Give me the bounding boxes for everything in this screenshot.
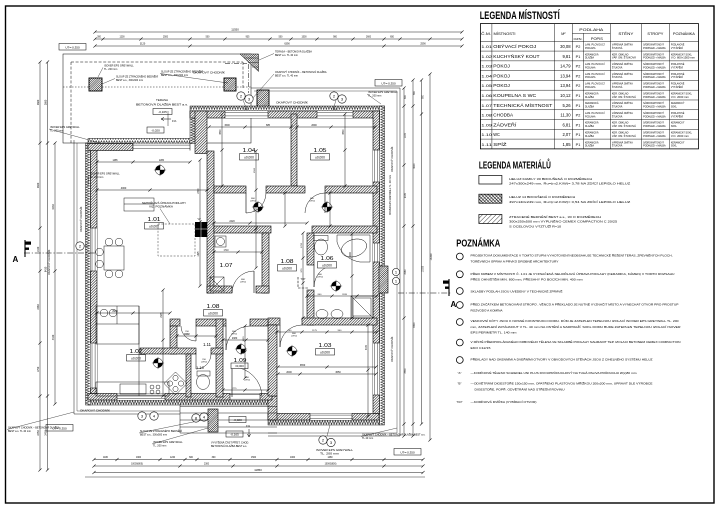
- svg-text:1900: 1900: [136, 457, 142, 459]
- svg-text:DLAŽBA: DLAŽBA: [585, 106, 594, 109]
- svg-text:1.05: 1.05: [481, 83, 493, 88]
- svg-text:OKAPOVÝ CHODNÍK: OKAPOVÝ CHODNÍK: [276, 100, 308, 104]
- svg-text:1020: 1020: [243, 336, 245, 342]
- svg-text:POKOJ: POKOJ: [493, 73, 510, 78]
- svg-text:497x140x249 mm, Ru=(m2.K/W)= 0: 497x140x249 mm, Ru=(m2.K/W)= 0,54 NA ZDÍ…: [509, 200, 631, 204]
- svg-text:1500: 1500: [254, 167, 256, 173]
- svg-text:LEGENDA MÍSTNOSTÍ: LEGENDA MÍSTNOSTÍ: [480, 9, 561, 22]
- svg-text:P1: P1: [576, 133, 581, 137]
- svg-text:4500: 4500: [220, 129, 222, 135]
- svg-text:(1970): (1970): [231, 334, 237, 336]
- svg-text:11,30: 11,30: [560, 113, 571, 118]
- svg-text:STROPY: STROPY: [647, 32, 664, 36]
- svg-text:PODHLED + MALBA: PODHLED + MALBA: [643, 125, 666, 128]
- svg-text:DLAŽBA: DLAŽBA: [585, 57, 594, 60]
- svg-text:PODHLED + MALBA: PODHLED + MALBA: [643, 96, 666, 99]
- svg-text:P2: P2: [576, 74, 581, 78]
- svg-text:3000: 3000: [349, 252, 352, 258]
- svg-text:SOKL: SOKL: [671, 106, 678, 109]
- svg-text:"KD": "KD": [457, 400, 463, 404]
- svg-text:1.01: 1.01: [148, 217, 161, 223]
- svg-text:KUCHYŇSKÝ KOUT: KUCHYŇSKÝ KOUT: [493, 54, 540, 59]
- svg-text:STĚNY: STĚNY: [618, 31, 634, 36]
- svg-text:PODHLED + MALBA: PODHLED + MALBA: [643, 86, 666, 89]
- svg-text:VÁP. OM. ŠTUKOVÁ: VÁP. OM. ŠTUKOVÁ: [612, 125, 636, 128]
- svg-text:OBÝVACÍ POKOJ: OBÝVACÍ POKOJ: [493, 44, 536, 49]
- svg-text:4230: 4230: [52, 204, 55, 210]
- svg-text:1.08: 1.08: [207, 304, 220, 310]
- svg-text:2800: 2800: [37, 182, 40, 188]
- svg-text:VYTÁPĚNÍ: VYTÁPĚNÍ: [671, 86, 683, 89]
- svg-text:2500: 2500: [163, 37, 169, 39]
- svg-text:VIZ. POZNÁMKA: VIZ. POZNÁMKA: [149, 205, 174, 208]
- svg-text:CHODBA: CHODBA: [493, 113, 513, 118]
- svg-text:ŠTUKOVÁ: ŠTUKOVÁ: [612, 106, 623, 109]
- svg-text:1580: 1580: [254, 206, 256, 212]
- svg-text:OKAPOVÝ CHODNÍK: OKAPOVÝ CHODNÍK: [80, 410, 110, 413]
- svg-text:ISOVER EPS GREYWALL TL. 200 mm: ISOVER EPS GREYWALL TL. 200 mm: [389, 175, 392, 215]
- svg-text:1.05: 1.05: [314, 148, 327, 154]
- svg-text:14,79: 14,79: [560, 64, 571, 69]
- svg-text:-0,020: -0,020: [151, 128, 160, 132]
- svg-text:UT=-0,350: UT=-0,350: [400, 450, 415, 454]
- svg-text:1.11: 1.11: [481, 142, 493, 147]
- svg-text:1240: 1240: [170, 457, 176, 459]
- svg-text:1175: 1175: [312, 330, 317, 332]
- svg-text:3120: 3120: [140, 43, 146, 46]
- svg-text:UT=-0,350: UT=-0,350: [65, 45, 80, 49]
- svg-text:685: 685: [266, 124, 271, 127]
- svg-text:P2: P2: [576, 114, 581, 118]
- svg-text:"B": "B": [458, 382, 462, 386]
- svg-text:BETONOVÁ DLAŽBA BEST a.s.: BETONOVÁ DLAŽBA BEST a.s.: [211, 445, 247, 448]
- svg-text:1700: 1700: [301, 242, 303, 248]
- svg-text:OKAPOVÝ CHODNÍK: OKAPOVÝ CHODNÍK: [79, 206, 83, 232]
- svg-text:OZN.: OZN.: [574, 37, 583, 41]
- svg-text:PODLAHA: PODLAHA: [579, 28, 604, 32]
- svg-text:DLAŽBA: DLAŽBA: [585, 125, 594, 128]
- svg-text:1540: 1540: [184, 334, 190, 336]
- svg-text:1%: 1%: [172, 119, 177, 123]
- svg-text:3180: 3180: [366, 344, 368, 350]
- svg-text:2300: 2300: [198, 188, 200, 194]
- svg-text:2935: 2935: [161, 312, 163, 318]
- svg-text:ŠTUKOVÁ: ŠTUKOVÁ: [612, 86, 623, 89]
- svg-text:1485: 1485: [112, 160, 118, 162]
- svg-text:TL. 200 mm: TL. 200 mm: [90, 176, 103, 179]
- svg-text:1200: 1200: [119, 37, 125, 39]
- svg-text:±0,000: ±0,000: [320, 350, 330, 354]
- svg-text:±0,000: ±0,000: [149, 224, 159, 228]
- svg-text:SOKL: SOKL: [671, 125, 678, 128]
- svg-text:2350: 2350: [244, 109, 250, 111]
- svg-text:2690: 2690: [311, 124, 317, 127]
- svg-text:PODHLED + MALBA: PODHLED + MALBA: [643, 76, 666, 79]
- svg-text:TERASA: TERASA: [156, 98, 168, 102]
- svg-text:2935: 2935: [112, 310, 118, 313]
- svg-text:DLAŽBA: DLAŽBA: [585, 135, 594, 138]
- svg-text:1%: 1%: [246, 424, 251, 428]
- svg-text:1.08: 1.08: [481, 113, 493, 118]
- svg-text:P1: P1: [576, 143, 581, 147]
- svg-text:2,07: 2,07: [562, 132, 571, 137]
- svg-text:A: A: [451, 300, 457, 309]
- svg-text:P2: P2: [576, 65, 581, 69]
- svg-text:2450: 2450: [44, 430, 47, 436]
- svg-text:"A": "A": [197, 217, 201, 221]
- svg-text:MÍSTNOSTI: MÍSTNOSTI: [494, 32, 516, 36]
- svg-text:1,85: 1,85: [562, 142, 571, 147]
- svg-text:P2: P2: [576, 45, 581, 49]
- svg-text:OKAPOVÝ CHODNÍK: OKAPOVÝ CHODNÍK: [390, 336, 394, 362]
- svg-text:8430: 8430: [44, 266, 47, 272]
- svg-text:1480: 1480: [327, 457, 333, 459]
- svg-text:PODHLED + MALBA: PODHLED + MALBA: [643, 57, 666, 60]
- svg-text:6390: 6390: [284, 43, 290, 46]
- svg-text:-0,165: -0,165: [158, 110, 167, 114]
- svg-text:VÁP. OM. ŠTUKOVÁ: VÁP. OM. ŠTUKOVÁ: [612, 57, 636, 60]
- svg-text:POZNÁMKA: POZNÁMKA: [673, 32, 696, 36]
- svg-text:BEST a.s. TL 40 mm: BEST a.s. TL 40 mm: [275, 54, 298, 57]
- svg-text:V.O. 2000 mm: V.O. 2000 mm: [671, 135, 689, 138]
- svg-text:2680: 2680: [44, 99, 47, 105]
- svg-text:1430: 1430: [37, 246, 40, 252]
- svg-text:(1970): (1970): [317, 277, 323, 279]
- svg-text:VÁP. OM. ŠTUKOVÁ: VÁP. OM. ŠTUKOVÁ: [612, 135, 636, 138]
- svg-text:5,26: 5,26: [562, 103, 571, 108]
- svg-text:"A": "A": [458, 371, 462, 375]
- svg-text:P1: P1: [576, 123, 581, 127]
- svg-text:13,94: 13,94: [560, 73, 571, 78]
- svg-text:1500: 1500: [251, 457, 257, 459]
- svg-text:1.09: 1.09: [481, 122, 493, 127]
- svg-text:SPÍŽ: SPÍŽ: [493, 142, 507, 147]
- svg-text:2600: 2600: [333, 109, 339, 111]
- svg-text:VYTÁPĚNÍ: VYTÁPĚNÍ: [671, 115, 683, 118]
- svg-text:1.06: 1.06: [321, 256, 334, 262]
- svg-text:ŠTUKOVÁ: ŠTUKOVÁ: [612, 66, 623, 69]
- svg-text:ŠTUKOVÁ: ŠTUKOVÁ: [612, 47, 623, 50]
- svg-text:ŠTUKOVÁ: ŠTUKOVÁ: [612, 145, 623, 148]
- svg-text:EKO C12/15: EKO C12/15: [471, 346, 492, 350]
- svg-text:1425: 1425: [198, 251, 200, 257]
- svg-text:OKAPOVÝ CHODNÍK: OKAPOVÝ CHODNÍK: [193, 71, 225, 75]
- svg-text:3650: 3650: [335, 371, 341, 374]
- svg-text:KOUPELNA S WC: KOUPELNA S WC: [493, 93, 536, 98]
- svg-text:POKOJ: POKOJ: [493, 64, 510, 69]
- svg-text:6,81: 6,81: [562, 122, 571, 127]
- svg-text:TL. 200 mm: TL. 200 mm: [368, 94, 381, 97]
- svg-text:1.08: 1.08: [281, 259, 294, 265]
- svg-text:P1: P1: [576, 94, 581, 98]
- svg-text:1.02: 1.02: [481, 54, 493, 59]
- svg-text:9,81: 9,81: [562, 54, 571, 59]
- svg-text:TECHNICKÁ MÍSTNOST: TECHNICKÁ MÍSTNOST: [493, 103, 553, 108]
- svg-text:PODHLED + MALBA: PODHLED + MALBA: [643, 106, 666, 109]
- svg-text:PODLAHA: PODLAHA: [585, 47, 596, 50]
- svg-text:247x300x249 mm, Ru=(m2.K/W)= 3: 247x300x249 mm, Ru=(m2.K/W)= 3,78 NA ZDÍ…: [509, 182, 631, 186]
- svg-text:UT=-0,350: UT=-0,350: [381, 81, 396, 85]
- svg-text:2000: 2000: [286, 371, 292, 374]
- svg-text:1.02: 1.02: [130, 349, 143, 355]
- svg-text:1000: 1000: [290, 457, 296, 459]
- svg-text:11850: 11850: [254, 468, 262, 472]
- svg-text:2450: 2450: [37, 430, 40, 436]
- svg-text:1970: 1970: [405, 132, 407, 138]
- svg-text:13,94: 13,94: [560, 83, 571, 88]
- svg-text:PODLAHA: PODLAHA: [585, 76, 596, 79]
- svg-text:ŠTUKOVÁ: ŠTUKOVÁ: [612, 76, 623, 79]
- svg-text:BEST a.s., 300x300 mm: BEST a.s., 300x300 mm: [116, 79, 143, 82]
- svg-text:2680: 2680: [37, 99, 40, 105]
- svg-text:±0,000: ±0,000: [282, 266, 292, 270]
- svg-text:30,08: 30,08: [560, 44, 571, 49]
- svg-text:2380: 2380: [37, 304, 40, 310]
- svg-text:10330: 10330: [422, 265, 424, 272]
- svg-text:3060: 3060: [405, 269, 407, 275]
- svg-text:VYTÁPĚNÍ: VYTÁPĚNÍ: [671, 66, 683, 69]
- svg-text:BEST a.s., 300x500 mm: BEST a.s., 300x500 mm: [140, 433, 167, 436]
- svg-text:1180: 1180: [103, 457, 109, 459]
- svg-text:1500: 1500: [301, 37, 307, 39]
- svg-text:1.10: 1.10: [196, 365, 205, 370]
- svg-text:TL 40 mm: TL 40 mm: [362, 437, 373, 440]
- svg-text:WC: WC: [493, 132, 500, 137]
- svg-text:PODHLED + MALBA: PODHLED + MALBA: [643, 47, 666, 50]
- svg-text:ŠTUKOVÁ: ŠTUKOVÁ: [612, 115, 623, 118]
- svg-text:LEGENDA MATERIÁLŮ: LEGENDA MATERIÁLŮ: [479, 157, 551, 171]
- svg-text:PODHLED + MALBA: PODHLED + MALBA: [643, 66, 666, 69]
- svg-text:3650: 3650: [300, 364, 306, 367]
- svg-text:10000(800): 10000(800): [131, 464, 143, 466]
- svg-text:P1: P1: [576, 104, 581, 108]
- svg-text:DLAŽBA: DLAŽBA: [585, 145, 594, 148]
- svg-text:A: A: [13, 255, 19, 264]
- svg-text:(1970): (1970): [291, 336, 297, 338]
- svg-text:P1: P1: [576, 55, 581, 59]
- svg-text:10,12: 10,12: [560, 93, 571, 98]
- svg-text:±0,000: ±0,000: [131, 356, 141, 360]
- svg-text:TL. 200 mm: TL. 200 mm: [320, 453, 339, 456]
- svg-text:1.06: 1.06: [481, 93, 493, 98]
- svg-text:±0,000: ±0,000: [208, 311, 218, 315]
- svg-text:1.04: 1.04: [243, 148, 256, 154]
- svg-text:2380: 2380: [232, 337, 238, 340]
- svg-text:DLAŽBA: DLAŽBA: [585, 96, 594, 99]
- svg-text:1.04: 1.04: [481, 73, 493, 78]
- svg-text:2035: 2035: [342, 294, 348, 296]
- svg-text:EPS PERIMETR TL. 140 mm: EPS PERIMETR TL. 140 mm: [471, 331, 518, 335]
- svg-text:(1970): (1970): [309, 201, 315, 203]
- svg-text:Č.M.: Č.M.: [481, 31, 491, 36]
- svg-text:SOKL: SOKL: [671, 145, 678, 148]
- svg-text:TL. 200 mm: TL. 200 mm: [104, 68, 117, 71]
- svg-text:(1970): (1970): [244, 380, 250, 382]
- svg-text:1.07: 1.07: [481, 103, 493, 108]
- svg-text:2300: 2300: [204, 464, 210, 466]
- svg-text:±0,000: ±0,000: [235, 364, 244, 368]
- svg-text:1.03: 1.03: [481, 64, 493, 69]
- svg-text:OKAPOVÝ CHODNÍK: OKAPOVÝ CHODNÍK: [390, 146, 394, 172]
- svg-text:POZNÁMKA: POZNÁMKA: [456, 236, 500, 249]
- svg-text:V.O. 800+1500 mm: V.O. 800+1500 mm: [671, 57, 695, 60]
- svg-text:VÁP. OM. ŠTUKOVÁ: VÁP. OM. ŠTUKOVÁ: [612, 96, 636, 99]
- svg-text:POPIS: POPIS: [591, 37, 603, 41]
- svg-text:±0,000: ±0,000: [244, 155, 254, 159]
- svg-text:1.01: 1.01: [481, 44, 493, 49]
- svg-text:11550: 11550: [231, 28, 239, 32]
- svg-text:(1970): (1970): [240, 282, 246, 284]
- svg-text:1.07: 1.07: [220, 263, 233, 269]
- svg-text:(1970): (1970): [201, 362, 207, 364]
- svg-text:1.03: 1.03: [319, 343, 332, 349]
- svg-text:PODLAHA: PODLAHA: [585, 86, 596, 89]
- svg-text:4430: 4430: [52, 334, 55, 340]
- svg-text:V.O. 2000 mm: V.O. 2000 mm: [671, 96, 689, 99]
- svg-text:PODLAHA: PODLAHA: [585, 115, 596, 118]
- svg-text:PODHLED + MALBA: PODHLED + MALBA: [643, 145, 666, 148]
- svg-text:2590: 2590: [420, 43, 426, 46]
- svg-text:10000(800): 10000(800): [325, 464, 337, 466]
- svg-text:1.11: 1.11: [203, 342, 212, 347]
- svg-text:6600: 6600: [414, 322, 416, 328]
- svg-text:1710: 1710: [223, 250, 229, 252]
- svg-text:±0,000: ±0,000: [322, 263, 332, 267]
- svg-text:ZÁDVEŘÍ: ZÁDVEŘÍ: [493, 122, 517, 127]
- svg-text:VYTÁPĚNÍ: VYTÁPĚNÍ: [671, 47, 683, 50]
- svg-text:2600: 2600: [366, 37, 372, 39]
- svg-text:2420: 2420: [229, 220, 235, 223]
- svg-text:4060: 4060: [121, 187, 127, 190]
- svg-text:2030: 2030: [405, 192, 407, 198]
- svg-text:1500: 1500: [224, 124, 230, 127]
- svg-text:3530: 3530: [405, 368, 407, 374]
- svg-text:PODHLED + MALBA: PODHLED + MALBA: [643, 115, 666, 118]
- svg-text:1750: 1750: [37, 366, 40, 372]
- svg-text:PODLAHA: PODLAHA: [585, 66, 596, 69]
- svg-text:BEST a.s. TL 40 mm: BEST a.s. TL 40 mm: [8, 430, 31, 433]
- svg-text:BEST a.s. TL 40 mm: BEST a.s. TL 40 mm: [275, 74, 298, 77]
- svg-text:POKOJ: POKOJ: [493, 83, 510, 88]
- svg-text:14200: 14200: [430, 253, 433, 260]
- svg-text:4000: 4000: [414, 163, 416, 169]
- svg-text:PODHLED + MALBA: PODHLED + MALBA: [643, 135, 666, 138]
- svg-text:2280: 2280: [159, 160, 165, 162]
- svg-text:(1970): (1970): [250, 201, 256, 203]
- svg-text:1.10: 1.10: [481, 132, 493, 137]
- svg-text:4500: 4500: [343, 129, 345, 135]
- svg-text:±0,000: ±0,000: [315, 155, 325, 159]
- svg-text:P2: P2: [576, 84, 581, 88]
- svg-text:TL. 200 mm: TL. 200 mm: [153, 444, 166, 447]
- svg-text:1775: 1775: [232, 388, 238, 390]
- svg-text:VYTÁPĚNÍ: VYTÁPĚNÍ: [671, 76, 683, 79]
